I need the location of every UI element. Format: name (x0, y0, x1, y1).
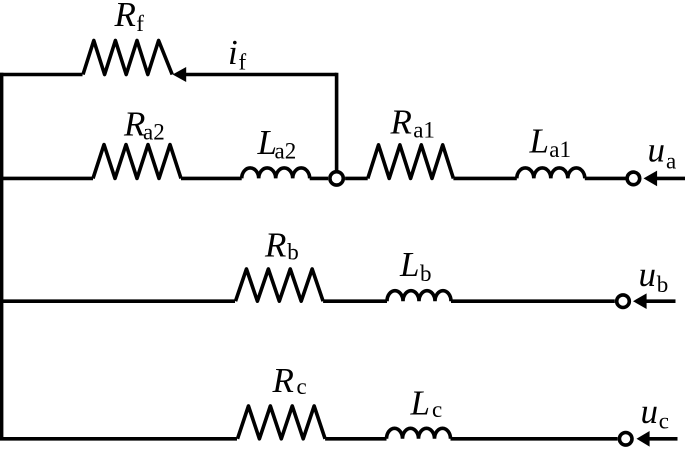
wire terminal b to right end (645, 299, 676, 303)
wire node to Ra1 (345, 177, 368, 181)
svg-text:L: L (410, 384, 430, 423)
wire Ra1 to La1 (453, 177, 516, 181)
arrow uc (637, 431, 650, 447)
wire Rc to Lc (325, 437, 386, 441)
svg-text:i: i (228, 33, 238, 72)
wire Lc to terminal c (451, 437, 618, 441)
inductor Lc (387, 428, 451, 439)
svg-text:b: b (420, 261, 432, 286)
wire row b: bus to Rb (0, 299, 235, 303)
svg-text:R: R (272, 361, 294, 400)
terminal circle ua (627, 172, 640, 185)
arrow ua (644, 171, 658, 187)
svg-text:a2: a2 (143, 119, 165, 144)
svg-text:R: R (264, 226, 286, 265)
wire La2 to node (310, 177, 328, 181)
wire Lb to terminal b (451, 299, 615, 303)
svg-text:R: R (390, 103, 412, 142)
resistor Ra2 (93, 145, 181, 179)
wire terminal c to right end (648, 437, 678, 441)
svg-text:L: L (399, 245, 419, 284)
svg-text:u: u (641, 392, 659, 431)
inductor La1 (517, 168, 585, 178)
svg-text:a2: a2 (275, 139, 297, 164)
resistor Rf (83, 41, 172, 75)
svg-text:a: a (666, 148, 676, 173)
terminal circle uc (619, 433, 632, 446)
resistor Ra1 (368, 145, 454, 179)
arrow if (current arrow pointing left into Rf) (173, 67, 187, 82)
inductor Lb (387, 291, 451, 302)
svg-text:f: f (136, 11, 144, 36)
wire row a: bus to Ra2 (0, 177, 93, 181)
svg-text:R: R (114, 0, 136, 34)
svg-text:b: b (287, 239, 299, 264)
node A junction circle (330, 172, 343, 185)
svg-text:a1: a1 (549, 137, 571, 162)
wire terminal a to right edge (656, 177, 685, 181)
wire row f horizontal left (0, 73, 83, 77)
svg-text:c: c (297, 374, 307, 399)
wire left vertical bus (0, 73, 3, 441)
svg-text:a1: a1 (413, 117, 435, 142)
svg-text:u: u (639, 255, 657, 294)
wire row f horizontal right of arrow (185, 73, 337, 77)
resistor Rc (238, 406, 326, 439)
wire row c: bus to Rc (0, 437, 237, 441)
wire vertical down to node (335, 73, 339, 170)
svg-text:b: b (657, 272, 669, 297)
svg-text:u: u (648, 131, 666, 170)
arrow ub (633, 293, 647, 309)
wire Ra2 to La2 (181, 177, 242, 181)
svg-text:L: L (529, 122, 549, 161)
svg-text:c: c (432, 397, 442, 422)
resistor Rb (236, 269, 324, 301)
wire La1 to terminal a (585, 177, 626, 181)
inductor La2 (242, 168, 310, 179)
terminal circle ub (617, 295, 630, 308)
svg-text:f: f (239, 50, 247, 75)
wire Rb to Lb (323, 299, 387, 303)
svg-text:c: c (659, 409, 669, 434)
